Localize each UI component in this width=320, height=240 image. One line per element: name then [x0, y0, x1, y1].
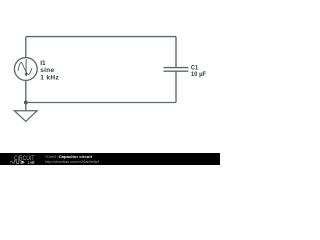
current source I1 arrow shaft [25, 59, 27, 73]
wire top [26, 36, 176, 38]
wire left upper [25, 37, 27, 58]
wire left lower [25, 80, 27, 102]
current source I1 circle [14, 58, 37, 81]
capacitor C1 bottom plate [164, 70, 189, 72]
capacitor C1 top plate [164, 67, 189, 69]
svg-text:I1: I1 [40, 60, 46, 67]
svg-text:sine: sine [40, 67, 54, 74]
svg-text:http://circuitlab.com/c/26ab9e: http://circuitlab.com/c/26ab9e5pf [45, 159, 99, 164]
ground stub [25, 103, 27, 111]
current source I1 sine wave [18, 63, 32, 75]
wire right upper [175, 37, 177, 68]
current source I1 arrow head [25, 73, 28, 76]
svg-text:LAB: LAB [28, 160, 35, 165]
junction dot [24, 101, 28, 105]
wire bottom [26, 102, 176, 104]
logo waveform [10, 161, 24, 164]
footer bar [0, 153, 220, 165]
wire right lower [175, 71, 177, 102]
ground triangle [14, 111, 37, 122]
svg-text:10 µF: 10 µF [191, 71, 206, 78]
svg-text:1 kHz: 1 kHz [40, 74, 59, 81]
logo bright square [21, 161, 23, 163]
